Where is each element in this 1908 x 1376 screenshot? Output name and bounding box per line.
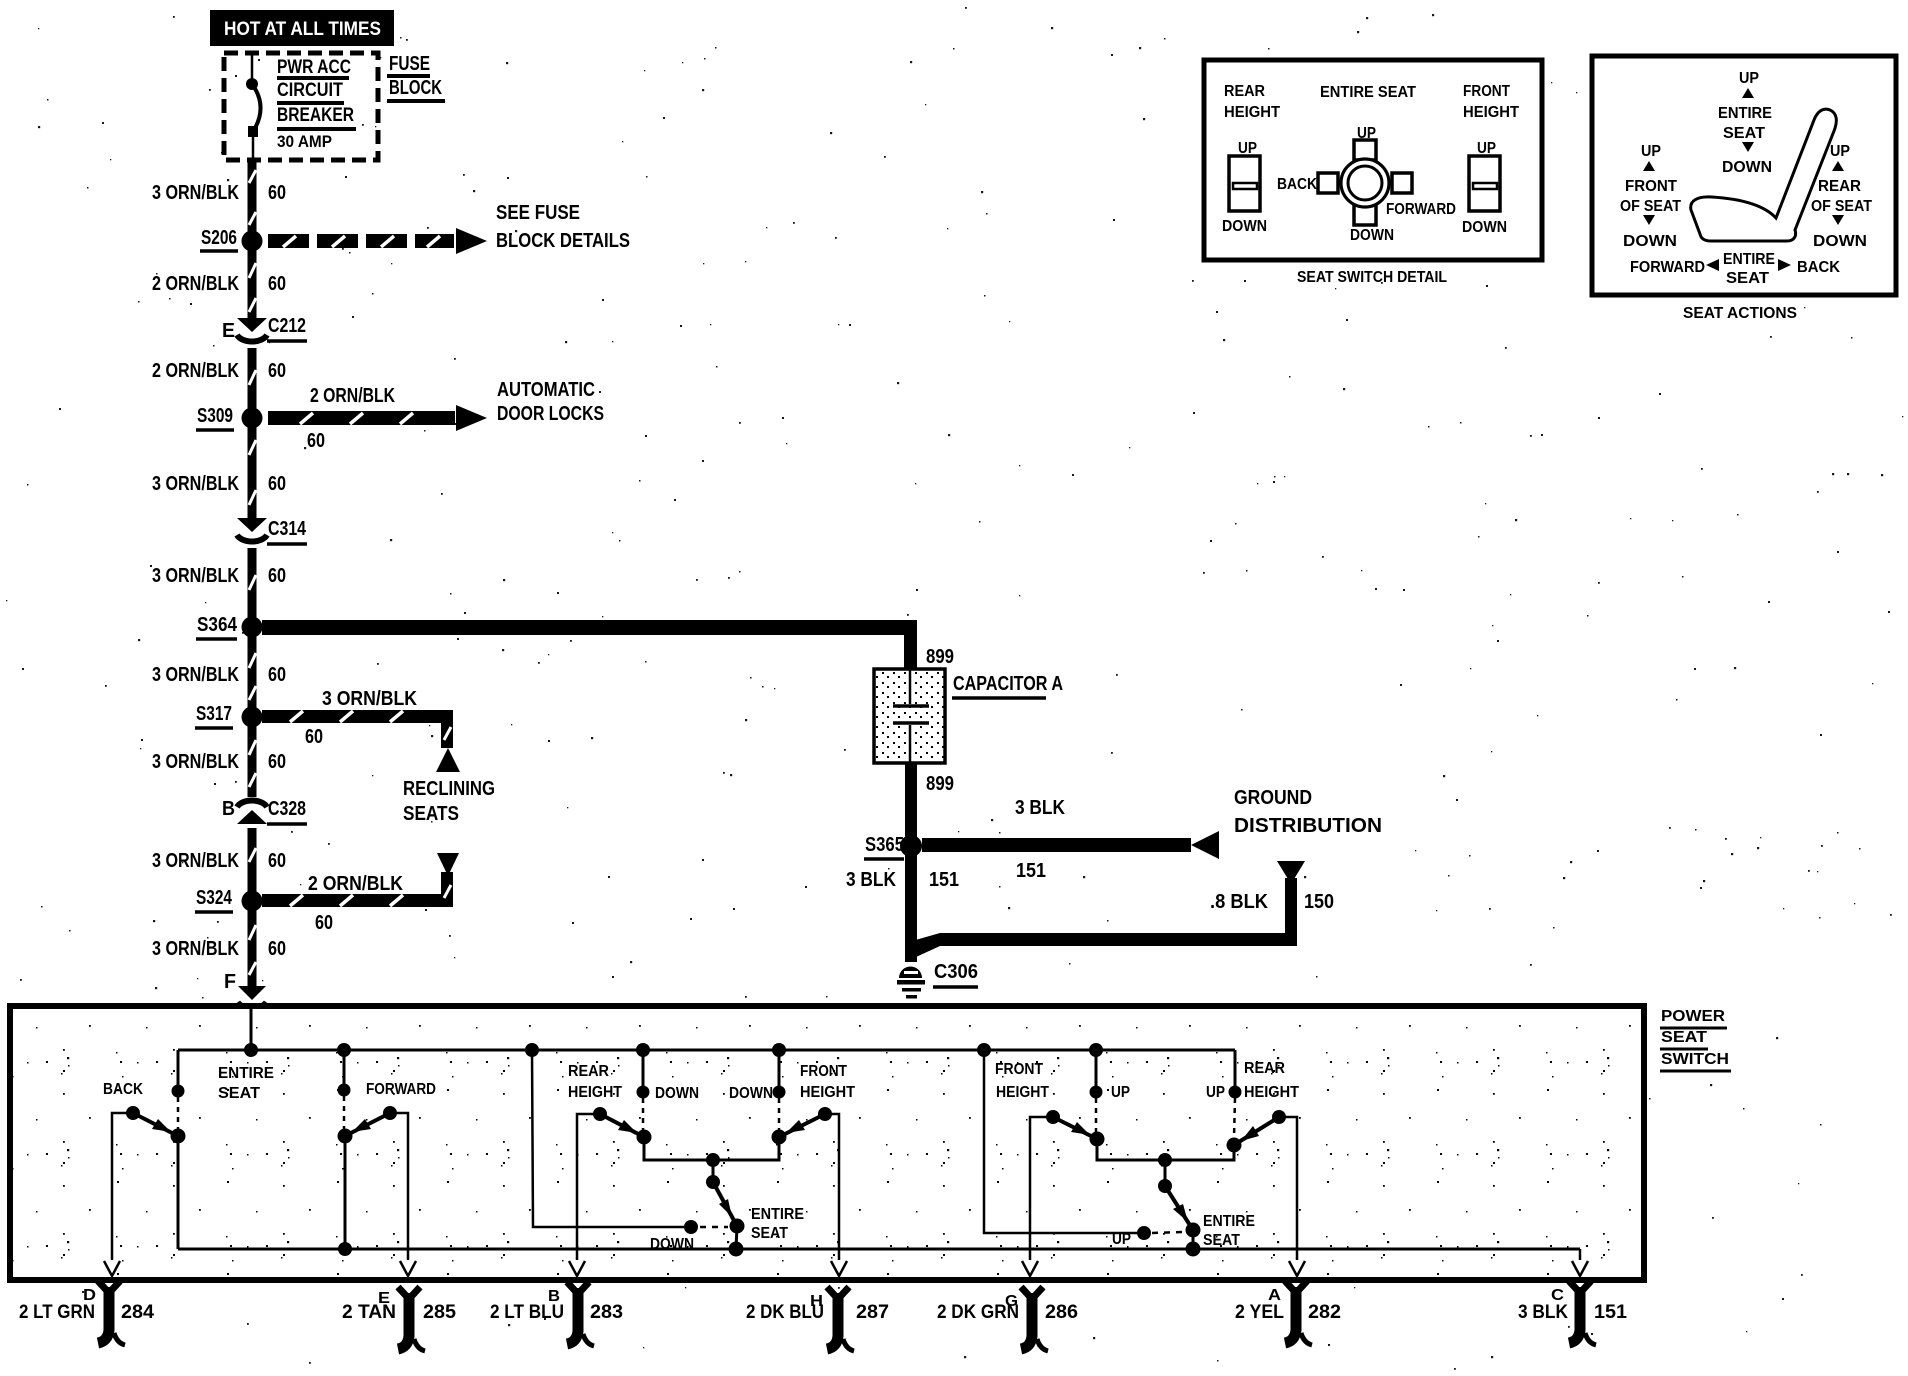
svg-text:HEIGHT: HEIGHT (996, 1084, 1049, 1101)
label FUSE BLOCK (387, 53, 445, 101)
seat actions entire seat up/down labels (1718, 70, 1772, 176)
svg-text:REAR: REAR (568, 1063, 609, 1080)
svg-text:3 ORN/BLK: 3 ORN/BLK (152, 850, 239, 872)
svg-text:SEE FUSE: SEE FUSE (496, 202, 580, 224)
svg-text:HEIGHT: HEIGHT (800, 1084, 855, 1101)
label SEAT ACTIONS (1683, 305, 1797, 322)
label 2 ORN/BLK 60 (152, 273, 286, 295)
svg-text:60: 60 (268, 360, 286, 382)
svg-text:150: 150 (1304, 891, 1334, 913)
wire ENTIRE SEAT UP feed (984, 1050, 1137, 1233)
svg-text:BLOCK: BLOCK (389, 77, 442, 99)
svg-text:ENTIRE: ENTIRE (218, 1065, 274, 1082)
wire ENTIRE SEAT DOWN feed (532, 1050, 684, 1227)
terminal H connector (746, 1287, 889, 1351)
svg-text:HOT AT ALL TIMES: HOT AT ALL TIMES (224, 19, 381, 40)
svg-text:BACK: BACK (1797, 259, 1841, 276)
svg-text:DOWN: DOWN (1350, 227, 1394, 244)
svg-text:3 ORN/BLK: 3 ORN/BLK (152, 751, 239, 773)
svg-text:AUTOMATIC: AUTOMATIC (497, 379, 595, 401)
svg-text:FRONT: FRONT (800, 1063, 847, 1080)
svg-text:287: 287 (856, 1302, 889, 1323)
connector C212 (222, 315, 307, 342)
top rail bus (178, 1043, 1235, 1057)
svg-text:899: 899 (926, 773, 954, 795)
svg-text:C314: C314 (268, 518, 307, 540)
terminal B connector (490, 1282, 623, 1346)
svg-text:SEAT: SEAT (1723, 125, 1766, 142)
svg-text:OF SEAT: OF SEAT (1811, 198, 1872, 215)
wire right REAR HEIGHT contact to terminal A (1279, 1117, 1305, 1276)
svg-text:FORWARD: FORWARD (366, 1081, 436, 1098)
terminal A connector (1235, 1281, 1341, 1345)
svg-text:SEAT: SEAT (1726, 270, 1770, 287)
svg-text:283: 283 (590, 1302, 623, 1323)
label SEE FUSE BLOCK DETAILS (496, 202, 630, 252)
seat switch detail box (1204, 60, 1542, 260)
svg-text:2 LT BLU: 2 LT BLU (490, 1302, 564, 1323)
svg-text:60: 60 (268, 938, 286, 960)
terminal E connector (342, 1287, 456, 1351)
wire .8 BLK 150 branch (905, 861, 1334, 957)
rear height slider switch (1222, 140, 1267, 235)
svg-text:2 DK GRN: 2 DK GRN (937, 1302, 1019, 1323)
svg-text:DOWN: DOWN (1462, 219, 1507, 236)
wire REAR HEIGHT contact to terminal B (569, 1114, 600, 1276)
power seat switch box (10, 1006, 1644, 1280)
wire S317 to C328 (248, 717, 257, 797)
svg-text:2 ORN/BLK: 2 ORN/BLK (152, 273, 239, 295)
terminal G connector (937, 1287, 1078, 1351)
svg-text:SEAT: SEAT (751, 1225, 788, 1242)
svg-text:3 BLK: 3 BLK (846, 869, 896, 891)
capacitor A (874, 669, 945, 763)
svg-text:ENTIRE: ENTIRE (1203, 1213, 1255, 1230)
svg-text:SEAT ACTIONS: SEAT ACTIONS (1683, 305, 1797, 322)
splice S364 (196, 614, 263, 639)
label 3 ORN/BLK 60 (152, 938, 286, 960)
label AUTOMATIC DOOR LOCKS (497, 379, 604, 425)
svg-text:DOWN: DOWN (1722, 159, 1772, 176)
svg-text:3 BLK: 3 BLK (1518, 1302, 1568, 1323)
svg-text:FRONT: FRONT (995, 1061, 1043, 1078)
svg-text:3 ORN/BLK: 3 ORN/BLK (322, 688, 417, 710)
svg-text:899: 899 (926, 646, 954, 668)
fuse block dashed box (224, 53, 378, 160)
switch ENTIRE SEAT UP (right group) (1112, 1160, 1255, 1257)
svg-text:3 ORN/BLK: 3 ORN/BLK (152, 565, 239, 587)
svg-text:60: 60 (307, 430, 325, 452)
svg-text:BLOCK DETAILS: BLOCK DETAILS (496, 230, 630, 252)
svg-text:DOOR LOCKS: DOOR LOCKS (497, 403, 604, 425)
svg-text:HEIGHT: HEIGHT (568, 1084, 622, 1101)
wire fuse block to S206 (248, 160, 257, 241)
svg-text:B: B (222, 798, 235, 820)
label ENTIRE SEAT (left group) (218, 1065, 274, 1102)
svg-text:30 AMP: 30 AMP (277, 132, 332, 151)
switch REAR HEIGHT (center group) (568, 1050, 699, 1145)
svg-text:UP: UP (1830, 143, 1850, 160)
svg-text:S364: S364 (197, 614, 238, 636)
svg-text:E: E (222, 320, 235, 342)
svg-text:3 BLK: 3 BLK (1015, 797, 1065, 819)
wire right FRONT HEIGHT contact to terminal G (1022, 1117, 1053, 1276)
wire C328 to S324 (248, 828, 257, 901)
svg-text:3 ORN/BLK: 3 ORN/BLK (152, 938, 239, 960)
svg-text:SEAT: SEAT (1661, 1029, 1707, 1046)
label 3 ORN/BLK 60 (152, 473, 286, 495)
svg-text:60: 60 (268, 473, 286, 495)
svg-text:POWER: POWER (1661, 1008, 1725, 1025)
svg-text:DOWN: DOWN (655, 1085, 699, 1102)
svg-text:DOWN: DOWN (1623, 233, 1677, 250)
svg-text:282: 282 (1308, 1302, 1341, 1323)
svg-text:DOWN: DOWN (1222, 218, 1267, 235)
svg-text:DISTRIBUTION: DISTRIBUTION (1234, 815, 1382, 837)
connector C314 (237, 518, 307, 544)
svg-text:60: 60 (268, 850, 286, 872)
svg-text:60: 60 (305, 726, 323, 748)
svg-text:CIRCUIT: CIRCUIT (277, 80, 343, 101)
svg-text:REAR: REAR (1244, 1060, 1285, 1077)
seat actions front of seat labels (1620, 143, 1681, 250)
svg-text:2 TAN: 2 TAN (342, 1302, 396, 1323)
svg-text:CAPACITOR A: CAPACITOR A (953, 673, 1063, 695)
svg-text:GROUND: GROUND (1234, 787, 1312, 809)
wire S365 to ground distribution (922, 797, 1219, 882)
svg-text:FRONT: FRONT (1463, 83, 1510, 100)
svg-text:SEATS: SEATS (403, 803, 459, 825)
seat actions forward/back labels (1630, 251, 1841, 287)
svg-text:60: 60 (268, 664, 286, 686)
wire FORWARD contact to terminal E (390, 1113, 416, 1276)
switch BACK (103, 1050, 186, 1249)
wire FRONT HEIGHT contact to terminal H (825, 1114, 847, 1276)
svg-text:DOWN: DOWN (1813, 233, 1867, 250)
terminal C connector (1518, 1281, 1627, 1345)
wire capacitor to S365 (905, 763, 954, 846)
splice S206 (200, 227, 263, 252)
svg-text:151: 151 (1594, 1302, 1627, 1323)
svg-text:SEAT: SEAT (1203, 1232, 1240, 1249)
splice S324 (195, 887, 263, 912)
wire S364 to capacitor (thick feed) (262, 620, 954, 669)
svg-text:286: 286 (1045, 1302, 1078, 1323)
svg-text:2 DK BLU: 2 DK BLU (746, 1302, 824, 1323)
svg-text:C328: C328 (268, 798, 306, 820)
svg-text:S324: S324 (196, 887, 233, 909)
wire S324 to reclining seats (down-feed) (262, 853, 459, 934)
seat actions box (1592, 56, 1896, 295)
switch ENTIRE SEAT DOWN (center group) (650, 1160, 804, 1257)
label 3 ORN/BLK 60 (152, 751, 286, 773)
svg-text:SWITCH: SWITCH (1661, 1051, 1729, 1068)
svg-text:F: F (224, 971, 236, 993)
splice S365 (864, 834, 922, 859)
wire S324 to power seat switch (248, 901, 257, 986)
svg-text:ENTIRE: ENTIRE (1718, 105, 1772, 122)
svg-text:FUSE: FUSE (389, 53, 430, 75)
svg-text:60: 60 (315, 912, 333, 934)
svg-text:60: 60 (268, 273, 286, 295)
seat profile drawing (1691, 109, 1837, 241)
wire S206 to C212 (248, 241, 257, 318)
svg-text:UP: UP (1739, 70, 1759, 87)
label SEAT SWITCH DETAIL (1297, 269, 1447, 286)
svg-text:HEIGHT: HEIGHT (1224, 104, 1281, 121)
link bar center group (644, 1143, 779, 1167)
svg-text:S365: S365 (865, 834, 904, 856)
label 3 ORN/BLK 60 (152, 182, 286, 204)
svg-text:RECLINING: RECLINING (403, 778, 495, 800)
circuit breaker PWR ACC 30A (246, 53, 261, 160)
svg-text:60: 60 (268, 565, 286, 587)
svg-text:S206: S206 (201, 227, 237, 249)
connector C328 (222, 798, 307, 824)
switch FRONT HEIGHT (center group) (729, 1050, 855, 1145)
svg-text:OF SEAT: OF SEAT (1620, 198, 1681, 215)
svg-text:.8 BLK: .8 BLK (1210, 891, 1269, 913)
label PWR ACC CIRCUIT BREAKER 30 AMP (277, 57, 356, 151)
svg-text:ENTIRE: ENTIRE (1723, 251, 1775, 268)
svg-text:DOWN: DOWN (729, 1085, 773, 1102)
svg-text:2 ORN/BLK: 2 ORN/BLK (308, 873, 403, 895)
svg-text:ENTIRE: ENTIRE (751, 1206, 804, 1223)
svg-text:REAR: REAR (1224, 83, 1265, 100)
entire seat knob (1277, 125, 1456, 244)
switch FORWARD (338, 1050, 437, 1249)
svg-text:PWR ACC: PWR ACC (277, 57, 351, 78)
label GROUND DISTRIBUTION (1234, 787, 1382, 837)
wire S309 to C314 (248, 418, 257, 518)
svg-text:HEIGHT: HEIGHT (1463, 104, 1520, 121)
svg-text:UP: UP (1641, 143, 1661, 160)
svg-text:2 YEL: 2 YEL (1235, 1302, 1284, 1323)
svg-text:284: 284 (121, 1302, 154, 1323)
label 2 ORN/BLK 60 (152, 360, 286, 382)
svg-text:REAR: REAR (1818, 178, 1861, 195)
wire C212 to S309 (248, 348, 257, 418)
bottom rail bus (178, 1242, 1588, 1276)
svg-text:SEAT: SEAT (218, 1085, 261, 1102)
svg-text:UP: UP (1111, 1084, 1130, 1101)
svg-text:ENTIRE SEAT: ENTIRE SEAT (1320, 84, 1416, 101)
wire S309 to automatic door locks (268, 385, 487, 452)
svg-text:3 ORN/BLK: 3 ORN/BLK (152, 473, 239, 495)
seat actions rear of seat labels (1811, 143, 1872, 250)
svg-text:S309: S309 (197, 405, 233, 427)
connector C306 with ground (897, 961, 978, 999)
label CAPACITOR A (952, 673, 1063, 698)
svg-text:FRONT: FRONT (1625, 178, 1678, 195)
front height slider switch (1462, 140, 1507, 236)
wire C314 to S364 (248, 548, 257, 627)
svg-text:FORWARD: FORWARD (1630, 259, 1705, 276)
svg-text:2 ORN/BLK: 2 ORN/BLK (152, 360, 239, 382)
svg-text:60: 60 (268, 751, 286, 773)
switch FRONT HEIGHT (right group) (995, 1050, 1130, 1147)
label 3 ORN/BLK 60 (152, 664, 286, 686)
terminal D connector (19, 1281, 154, 1345)
label RECLINING SEATS (403, 778, 495, 825)
switch REAR HEIGHT (right group) (1206, 1050, 1299, 1153)
label POWER SEAT SWITCH (1660, 1008, 1731, 1071)
connector F into switch (224, 971, 266, 1008)
svg-text:HEIGHT: HEIGHT (1244, 1084, 1299, 1101)
svg-text:C212: C212 (268, 315, 306, 337)
label 3 ORN/BLK 60 (152, 565, 286, 587)
svg-text:151: 151 (929, 869, 959, 891)
svg-text:C306: C306 (934, 961, 978, 983)
wire S364 to S317 (248, 627, 257, 717)
svg-text:SEAT SWITCH DETAIL: SEAT SWITCH DETAIL (1297, 269, 1447, 286)
svg-text:S317: S317 (196, 703, 232, 725)
svg-text:3 ORN/BLK: 3 ORN/BLK (152, 182, 239, 204)
dashed wire S206 to fuse block details (268, 228, 487, 254)
svg-text:UP: UP (1206, 1084, 1225, 1101)
wire S365 to C306 (846, 846, 959, 962)
svg-text:BACK: BACK (103, 1081, 144, 1098)
svg-text:BREAKER: BREAKER (277, 105, 354, 126)
svg-text:2 LT GRN: 2 LT GRN (19, 1302, 95, 1323)
link bar right group (1097, 1146, 1234, 1167)
hot-at-all-times power label (210, 10, 394, 46)
svg-text:285: 285 (423, 1302, 456, 1323)
wire BACK contact to terminal D (104, 1113, 133, 1276)
svg-text:151: 151 (1016, 860, 1046, 882)
svg-text:FORWARD: FORWARD (1386, 201, 1456, 218)
splice S309 (196, 405, 263, 430)
wire S317 to reclining seats (262, 688, 460, 772)
label 3 ORN/BLK 60 (152, 850, 286, 872)
svg-text:2 ORN/BLK: 2 ORN/BLK (310, 385, 395, 407)
svg-text:3 ORN/BLK: 3 ORN/BLK (152, 664, 239, 686)
svg-text:BACK: BACK (1277, 176, 1318, 193)
splice S317 (195, 703, 263, 728)
svg-text:60: 60 (268, 182, 286, 204)
wire F feed into top rail (250, 1008, 253, 1050)
